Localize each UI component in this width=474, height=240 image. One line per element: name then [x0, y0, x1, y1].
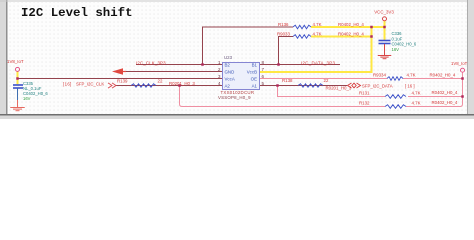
- svg-text:OE: OE: [251, 77, 257, 82]
- capacitor C336: [379, 40, 391, 42]
- svg-text:[16]: [16]: [63, 81, 72, 86]
- wire R136 left lead + riser to I2C_CLK_3P3: [203, 27, 294, 65]
- capacitor C335: [13, 84, 23, 86]
- wire ground-arrow into pin 2 (GND): [121, 71, 223, 73]
- svg-text:22: 22: [324, 78, 329, 83]
- svg-text:4.7K: 4.7K: [412, 100, 421, 105]
- svg-text:B1: B1: [252, 63, 258, 68]
- svg-text:R139: R139: [117, 78, 128, 83]
- power symbol 1V8_IoT right: [461, 68, 465, 72]
- svg-text:R0402_H0_4: R0402_H0_4: [432, 90, 458, 95]
- svg-text:R136: R136: [278, 22, 289, 27]
- junction node H: [276, 84, 279, 87]
- svg-text:R9334: R9334: [373, 73, 386, 78]
- svg-text:R138: R138: [282, 78, 293, 83]
- resistor R132: [385, 105, 406, 109]
- svg-text:16V: 16V: [392, 47, 400, 52]
- wire riser from SFP_I2C_CLK down to R132: [180, 86, 386, 107]
- wire I2C_CLK_3P3 into pin 1 (B2): [136, 64, 223, 66]
- svg-text:4.7K: 4.7K: [313, 31, 322, 36]
- svg-text:GND: GND: [225, 70, 235, 75]
- junction node B: [383, 26, 386, 29]
- port SFP_I2C_DATA: [348, 83, 361, 88]
- ground under C336: [384, 44, 386, 55]
- ground under C335: [17, 100, 19, 108]
- svg-text:R0402_H0_4: R0402_H0_4: [432, 100, 458, 105]
- svg-text:I2C_DATA_3P3: I2C_DATA_3P3: [301, 60, 335, 65]
- wire VCC_3V3 row from R9033 to riser: [311, 36, 372, 38]
- junction node J: [461, 95, 464, 98]
- svg-text:SFP_I2C_DATA: SFP_I2C_DATA: [362, 84, 393, 89]
- svg-text:22: 22: [158, 79, 163, 84]
- junction node C: [370, 35, 373, 38]
- svg-text:VSSOP8_H0_9: VSSOP8_H0_9: [218, 95, 251, 100]
- wire 1V8 stem down to C335: [17, 71, 19, 84]
- power symbol 1V8_IoT left: [16, 67, 20, 71]
- resistor R138: [298, 84, 323, 87]
- svg-text:4.7K: 4.7K: [313, 22, 322, 27]
- svg-text:VccB: VccB: [247, 70, 257, 75]
- resistor R9033: [293, 35, 311, 39]
- svg-text:R0402_H0_4: R0402_H0_4: [338, 22, 364, 27]
- svg-text:A2: A2: [225, 84, 231, 89]
- junction node F: [16, 77, 19, 80]
- svg-text:4.7K: 4.7K: [407, 73, 416, 78]
- power symbol VCC_3V3: [383, 17, 387, 21]
- svg-text:[ 16 ]: [ 16 ]: [405, 84, 415, 89]
- wire riser from SFP_I2C_DATA down to R131: [278, 86, 386, 97]
- svg-text:R0201_H0_3: R0201_H0_3: [169, 81, 195, 86]
- svg-text:VCC_3V3: VCC_3V3: [374, 9, 394, 14]
- resistor R136: [293, 25, 311, 29]
- wire VccB to riser: [260, 71, 372, 73]
- level shifter U23 TXS0102DCUR: [223, 63, 260, 90]
- wire 1V8 into pin 3 (VccA): [18, 78, 223, 80]
- svg-text:R132: R132: [359, 101, 370, 106]
- svg-text:1V8_IoT: 1V8_IoT: [7, 59, 24, 64]
- wire R9033 left lead + riser to I2C_DATA_3P3: [279, 37, 294, 65]
- wire I2C_DATA_3P3 from pin 8 (B1): [260, 64, 341, 66]
- svg-text:R0402_H0_4: R0402_H0_4: [430, 73, 456, 78]
- resistor R131: [385, 95, 406, 99]
- wire OE row to R9334: [260, 78, 387, 80]
- wire SFP_I2C_CLK port row into pin 4 (A2): [116, 85, 223, 87]
- wire SFP_I2C_DATA port row from pin 5 (A1): [260, 85, 348, 87]
- svg-text:R9033: R9033: [277, 31, 290, 36]
- wire VCC_3V3 row from R136 to stem: [311, 26, 385, 28]
- junction node G: [178, 84, 181, 87]
- wire VCC_3V3 stem down to C336: [384, 21, 386, 41]
- junction node E: [277, 63, 280, 66]
- resistor R9334: [387, 77, 403, 81]
- wire R9334 right lead to 1V8 riser: [403, 78, 463, 80]
- svg-text:R0402_H0_4: R0402_H0_4: [338, 31, 364, 36]
- svg-text:4.7K: 4.7K: [412, 90, 421, 95]
- ground arrow symbol on GND wire: [112, 68, 123, 74]
- svg-text:1V8_IoT: 1V8_IoT: [451, 61, 468, 66]
- svg-text:I2C_CLK_3P3: I2C_CLK_3P3: [136, 60, 166, 65]
- wire 1V8 right riser: [458, 73, 463, 107]
- svg-text:I2C Level shift: I2C Level shift: [21, 6, 133, 20]
- svg-text:SFP_I2C_CLK: SFP_I2C_CLK: [76, 81, 104, 86]
- wire R132 right lead: [406, 106, 461, 108]
- svg-text:B2: B2: [225, 63, 231, 68]
- junction node A: [370, 26, 373, 29]
- svg-text:R131: R131: [359, 91, 370, 96]
- junction node D: [201, 63, 204, 66]
- resistor R139: [131, 84, 156, 87]
- svg-text:VccA: VccA: [225, 77, 235, 82]
- svg-text:U23: U23: [224, 55, 233, 60]
- wire VCC_3V3 riser down to VccB: [371, 26, 373, 73]
- junction node I: [461, 77, 464, 80]
- svg-text:A1: A1: [252, 84, 258, 89]
- svg-text:16V: 16V: [23, 96, 31, 101]
- wire R131 right lead: [408, 96, 463, 98]
